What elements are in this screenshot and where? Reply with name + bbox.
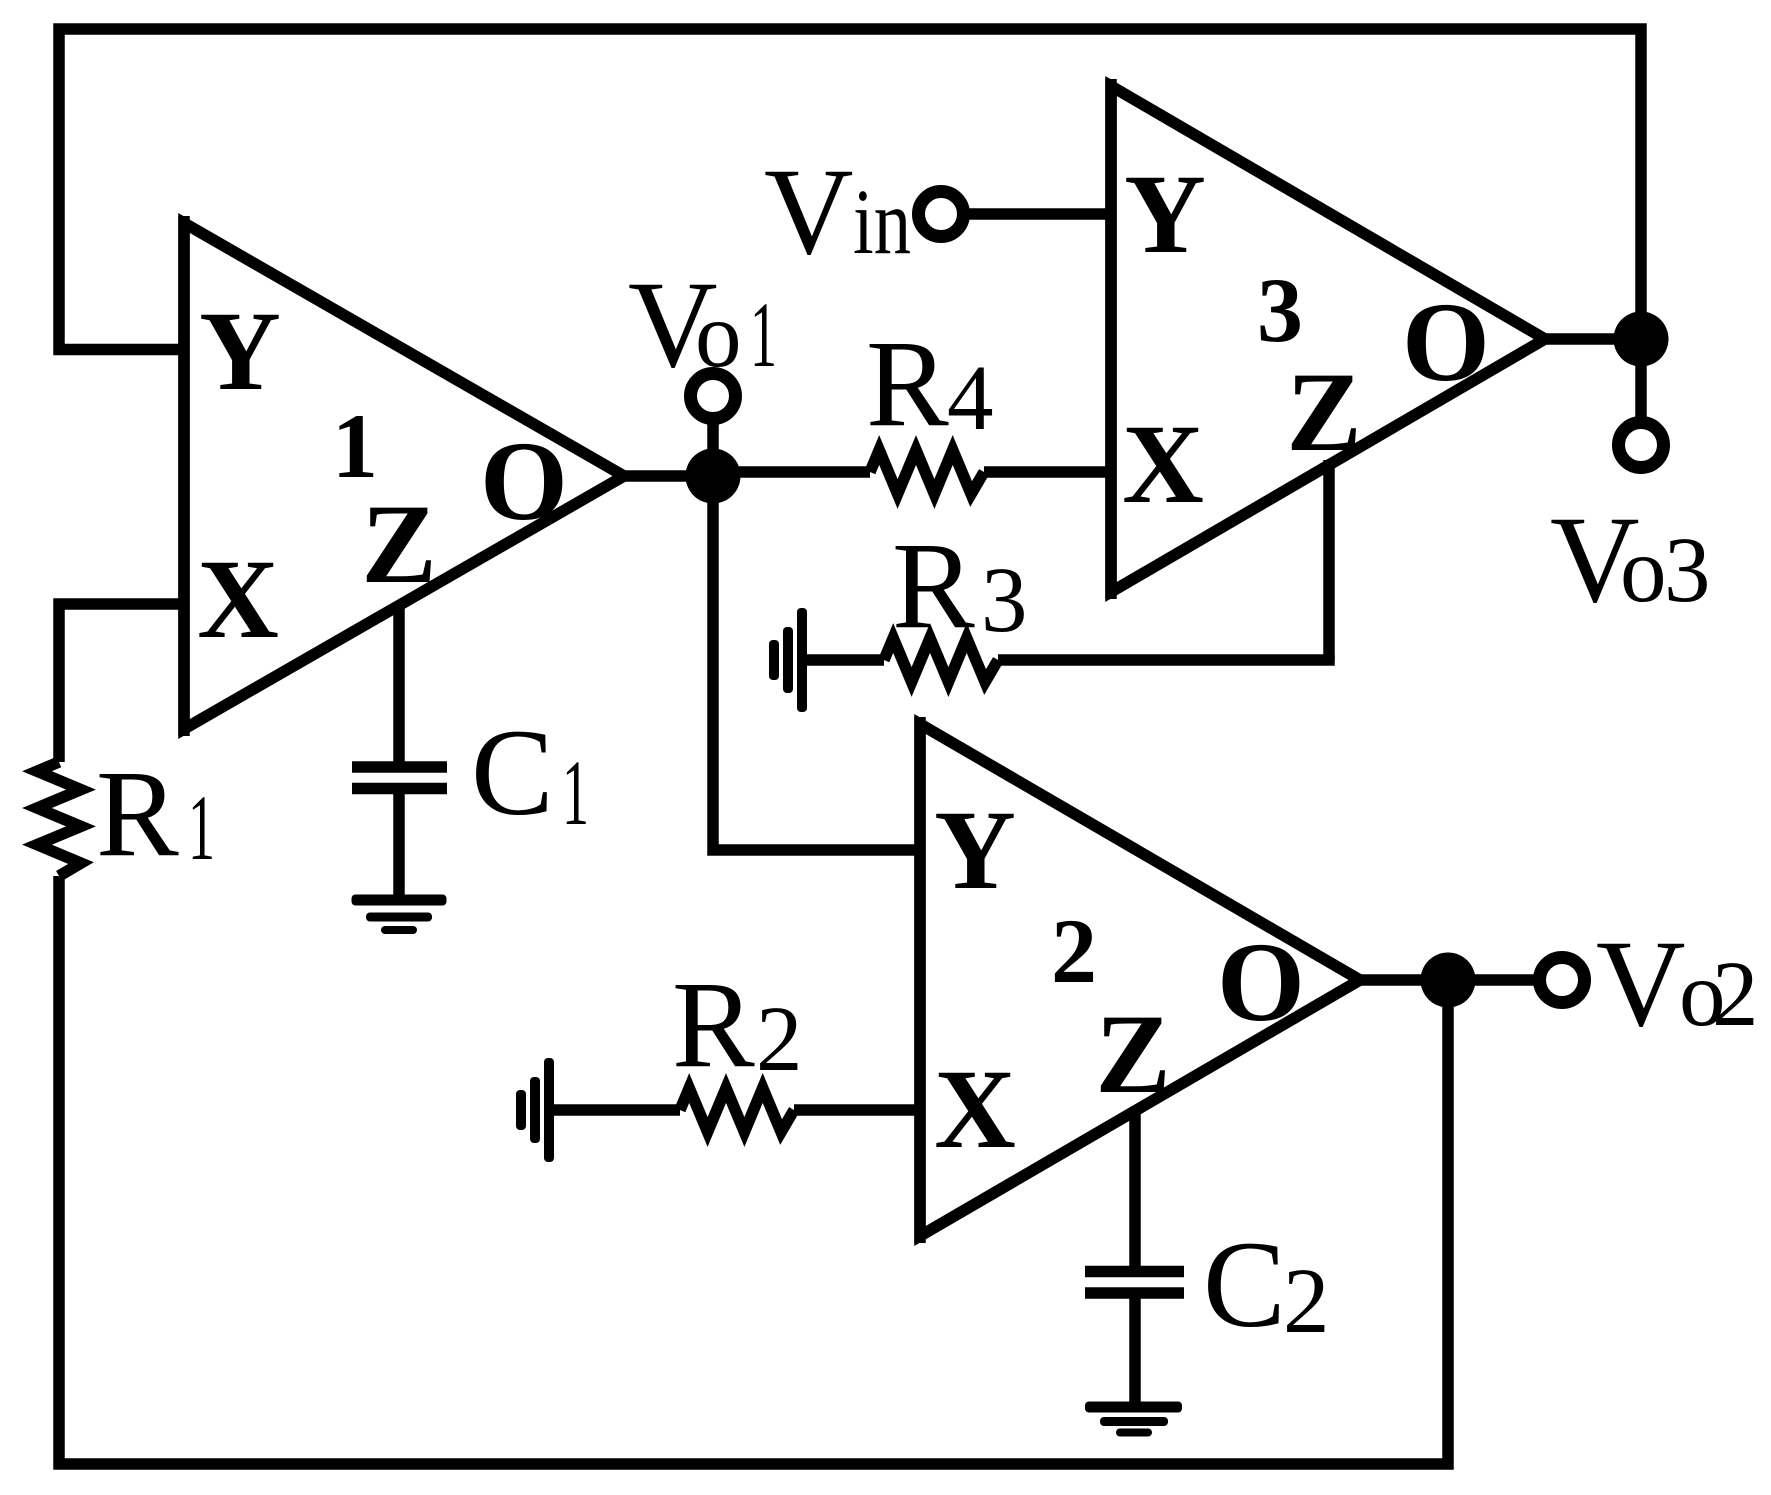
- ground G3 (sideways earth): [769, 608, 807, 712]
- wire: feedback loop from node Vo3 up over the top to Y input of op-amp U1: [59, 29, 1641, 350]
- wire: U1 X input to left rail: [59, 604, 184, 762]
- svg-text:Y: Y: [934, 788, 1016, 913]
- node Vo1 (junction dot): [686, 449, 741, 504]
- resistor R1: [37, 762, 81, 876]
- wire: R2 to X input of U2: [794, 1104, 920, 1116]
- svg-text:Z: Z: [1095, 992, 1170, 1117]
- wire: R4 to X input of op-amp U3: [984, 466, 1111, 478]
- svg-text:1: 1: [332, 395, 378, 497]
- svg-text:X: X: [1122, 402, 1204, 527]
- svg-text:X: X: [197, 537, 279, 662]
- wire: U1 output to node Vo1: [624, 470, 713, 482]
- wire: ground G2 to R2: [549, 1104, 680, 1116]
- svg-text:Y: Y: [1124, 152, 1206, 277]
- wire: node Vo2 to terminal Vo2: [1448, 974, 1558, 986]
- svg-text:Z: Z: [361, 482, 436, 607]
- node Vo3 (junction dot): [1614, 312, 1669, 367]
- ground G2 (sideways earth): [516, 1058, 554, 1162]
- op-amp U2: [920, 724, 1360, 1236]
- svg-text:3: 3: [1257, 259, 1303, 361]
- ground G4 (earth under C2): [1085, 1402, 1182, 1437]
- op-amp U3: [1111, 86, 1545, 592]
- svg-text:O: O: [1217, 920, 1305, 1045]
- svg-text:O: O: [1402, 280, 1490, 405]
- terminal Vo1 (stub and ring): [707, 400, 719, 476]
- resistor R2: [680, 1088, 794, 1132]
- wire: U2 output to node Vo2: [1360, 974, 1448, 986]
- node Vo2 (junction dot): [1421, 953, 1476, 1008]
- terminal Vo3 (stub and ring): [1635, 339, 1647, 442]
- ground G1 (earth under C1): [352, 895, 447, 935]
- wire: R3 right lead to U3 Z pin: [998, 655, 1329, 660]
- wire: U3 output to node Vo3: [1545, 333, 1641, 345]
- wire: node Vo1 to resistor R4: [713, 466, 870, 478]
- svg-text:2: 2: [1051, 900, 1097, 1002]
- wire: terminal Vin to Y input of op-amp U3: [941, 208, 1111, 220]
- terminal Vin (ring): [919, 192, 964, 237]
- wire: ground G3 to R3: [802, 654, 884, 666]
- op-amp U1: [184, 223, 624, 729]
- capacitor C1 (Z pin of U1 to ground): [393, 602, 405, 762]
- capacitor C2 (Z pin of U2 to ground): [1129, 1108, 1141, 1266]
- svg-text:Y: Y: [199, 289, 281, 414]
- svg-text:Z: Z: [1286, 350, 1361, 475]
- resistor R4: [870, 450, 984, 494]
- svg-text:O: O: [480, 419, 568, 544]
- svg-text:X: X: [934, 1047, 1016, 1172]
- terminal Vo2 (ring): [1540, 958, 1585, 1003]
- wire: R1 bottom along bottom rail up to node Vo2: [59, 876, 1448, 1464]
- wire: node Vo1 down and right to Y input of op-amp U2: [713, 476, 920, 850]
- wire: U3 Z pin down to R3: [1323, 460, 1335, 660]
- resistor R3: [884, 638, 998, 682]
